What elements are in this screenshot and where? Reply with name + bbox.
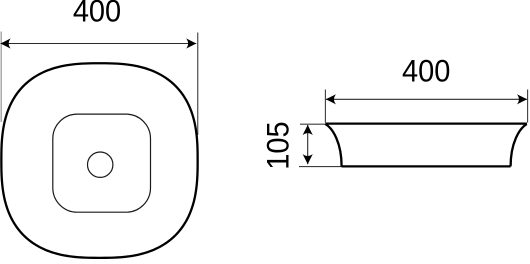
svg-text:400: 400 [402,55,450,89]
svg-text:105: 105 [262,121,296,169]
svg-text:400: 400 [73,0,121,29]
